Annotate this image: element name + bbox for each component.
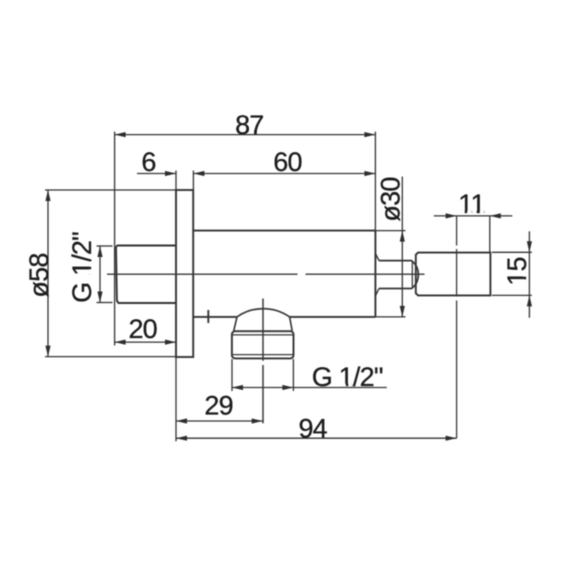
- arrow nut G12 right: [282, 385, 293, 390]
- right outlet nipple bottom edge: [379, 288, 412, 290]
- wall-side inlet nipple G1/2: [116, 246, 176, 304]
- valve body top edge: [193, 230, 375, 232]
- extension line inlet thread top: [97, 245, 113, 247]
- arrow 20 left: [115, 340, 126, 345]
- arrow 29 left: [176, 418, 187, 423]
- valve body bottom edge right part: [290, 316, 376, 318]
- dimension line 15: [528, 231, 530, 317]
- arrow G12 inlet top: [97, 246, 102, 257]
- arrow nut G12 left: [232, 385, 243, 390]
- dimension line 94: [176, 437, 457, 439]
- svg-text:6: 6: [141, 147, 155, 177]
- extension line flange right top: [192, 171, 194, 191]
- extension line flange diameter bottom: [45, 356, 176, 358]
- svg-text:29: 29: [204, 391, 232, 421]
- bottom outlet centerline: [262, 299, 264, 361]
- cap nut upper chamfer line: [232, 334, 294, 336]
- nipple end root line: [411, 261, 413, 289]
- svg-text:ø30: ø30: [376, 177, 406, 221]
- extension line left nipple tip vertical: [114, 132, 116, 346]
- extension line block right vertical: [489, 216, 491, 253]
- right outlet nipple top edge: [379, 260, 412, 262]
- arrow 87 right: [364, 132, 375, 137]
- dimension line cap nut G12 leader: [232, 387, 387, 389]
- arrow G12 inlet bottom: [97, 292, 102, 303]
- dimension line d58: [47, 190, 49, 357]
- cap nut lower chamfer line: [232, 354, 294, 356]
- svg-text:60: 60: [273, 147, 301, 177]
- arrow 15 top: [527, 241, 532, 252]
- arrow 94 right: [446, 436, 457, 441]
- arrow d58 top: [45, 190, 50, 201]
- bell right side: [290, 317, 293, 331]
- arrow 11 left: [446, 213, 457, 218]
- svg-text:G 1/2": G 1/2": [312, 362, 383, 392]
- dimension line G12 inlet: [99, 246, 101, 303]
- body right chamfer top: [375, 254, 379, 261]
- arrow 60 left: [193, 171, 204, 176]
- valve body bottom edge left part: [193, 316, 237, 318]
- body right chamfer bottom: [375, 289, 379, 296]
- dimension line 60: [193, 173, 375, 175]
- arrow d58 bottom: [45, 346, 50, 357]
- dimension line 87: [115, 134, 376, 136]
- extension line flange left lower vertical: [175, 357, 177, 441]
- extension line inlet thread bottom: [97, 302, 113, 304]
- extension line cap nut right: [292, 359, 294, 391]
- extension line cap nut left: [231, 359, 233, 391]
- outlet block: [416, 253, 491, 296]
- bottom outlet bell: [237, 309, 290, 317]
- tick on body bottom edge: [207, 310, 209, 323]
- arrow 29 right: [252, 418, 263, 423]
- main horizontal centerline: [107, 273, 298, 275]
- svg-text:11: 11: [458, 189, 484, 219]
- svg-text:94: 94: [298, 413, 327, 443]
- dimension line 20: [115, 341, 176, 343]
- arrow d30 bottom: [400, 306, 405, 317]
- svg-text:87: 87: [235, 110, 263, 140]
- nipple rounded end: [412, 261, 418, 288]
- dimension line 6 tail: [137, 173, 176, 175]
- dimension line d30: [401, 177, 403, 317]
- cap nut outline: [232, 331, 294, 358]
- arrow 20 right: [165, 340, 176, 345]
- flange plate: [176, 190, 193, 357]
- extension line body right vertical: [374, 132, 376, 231]
- extension line body diameter top: [375, 230, 405, 232]
- arrow 87 left: [115, 132, 126, 137]
- arrow 6 left: [165, 171, 176, 176]
- arrow 60 right: [364, 171, 375, 176]
- svg-text:ø58: ø58: [24, 253, 54, 297]
- arrow d30 top: [400, 231, 405, 242]
- arrow 94 left: [176, 436, 187, 441]
- extension line block bottom right: [492, 294, 532, 296]
- bell left side: [234, 317, 237, 331]
- dimension line 11: [434, 215, 513, 217]
- right outlet centerline: [456, 216, 458, 246]
- arrow 11 right: [490, 213, 501, 218]
- dimension line 29: [176, 420, 263, 422]
- arrow 15 bottom: [527, 295, 532, 306]
- svg-text:15: 15: [502, 257, 532, 285]
- svg-text:G 1/2": G 1/2": [67, 232, 97, 303]
- svg-text:20: 20: [128, 314, 156, 344]
- extension line flange left top: [175, 171, 177, 191]
- serif covers to mimic Arial digit 1: [89, 211, 527, 387]
- extension line body diameter bottom: [375, 316, 405, 318]
- valve body right edge: [374, 231, 376, 317]
- extension line block top right: [492, 251, 532, 253]
- extension line flange diameter top: [45, 189, 176, 191]
